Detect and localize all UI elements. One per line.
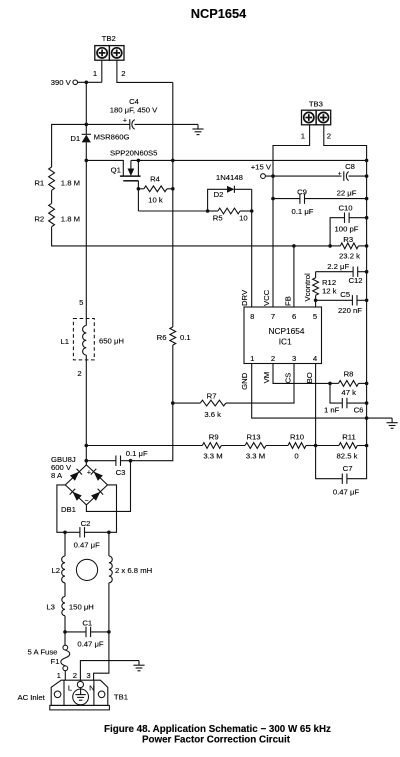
svg-text:−: −: [84, 498, 88, 505]
gate wire to driver network: [138, 209, 209, 213]
Q1 source row to ground column and rail: [131, 159, 369, 163]
svg-text:N: N: [89, 684, 95, 693]
wire TB2-1 to 390V node: [101, 60, 103, 82]
svg-text:2: 2: [271, 354, 275, 363]
op-amp U IC1 NCP1654 controller: [244, 307, 322, 364]
wire FB pin drop: [293, 246, 295, 307]
svg-text:0.47 μF: 0.47 μF: [74, 541, 101, 550]
wire R13 to R10: [266, 445, 288, 447]
wire fuse to TB1 pin 1: [64, 671, 66, 681]
pin label GND: [240, 372, 249, 390]
wire 390V rail down to D1 cathode: [85, 82, 87, 134]
node 390 V: [51, 78, 102, 87]
svg-text:1.8 M: 1.8 M: [61, 179, 80, 188]
wire earth to chassis ground: [80, 661, 139, 682]
wire bridge rail to R9: [85, 444, 203, 448]
resistor R9 3.3 M: [202, 432, 222, 460]
svg-text:R5: R5: [213, 213, 223, 222]
svg-text:AC Inlet: AC Inlet: [17, 693, 45, 702]
resistor R13 3.3 M: [245, 432, 266, 460]
svg-text:2 x 6.8 mH: 2 x 6.8 mH: [115, 566, 152, 575]
svg-text:10: 10: [239, 213, 248, 222]
svg-text:F1: F1: [51, 657, 60, 666]
pin label VM: [262, 372, 271, 384]
inductor L3 150 uH: [46, 597, 94, 616]
node +15 V: [251, 162, 342, 178]
label AC Inlet: [17, 693, 45, 702]
svg-text:C12: C12: [348, 276, 362, 285]
capacitor C7 0.47 uF: [316, 446, 367, 497]
svg-text:1: 1: [93, 69, 97, 78]
svg-text:0.47 μF: 0.47 μF: [77, 639, 104, 648]
svg-text:DB1: DB1: [61, 505, 76, 514]
svg-text:FB: FB: [283, 296, 292, 306]
resistor R3 23.2 k: [292, 235, 368, 260]
svg-text:R10: R10: [290, 432, 304, 441]
resistor R12 12 k: [313, 272, 337, 307]
svg-text:82.5 k: 82.5 k: [337, 451, 358, 460]
wire L1 to bridge positive rail: [85, 355, 87, 465]
svg-text:100 pF: 100 pF: [335, 225, 359, 234]
svg-text:8 A: 8 A: [51, 471, 63, 480]
svg-text:1.8 M: 1.8 M: [61, 215, 80, 224]
svg-text:0.1 μF: 0.1 μF: [292, 207, 314, 216]
TB2 pin 2 label: [121, 69, 125, 78]
svg-text:150 μH: 150 μH: [69, 603, 94, 612]
pin label DRV: [240, 289, 249, 306]
capacitor C2 0.47 uF: [63, 519, 110, 549]
svg-text:R2: R2: [34, 215, 44, 224]
svg-text:C9: C9: [297, 187, 307, 196]
svg-text:TB2: TB2: [102, 34, 116, 43]
svg-text:+: +: [123, 117, 127, 124]
pin label BO: [305, 372, 314, 383]
capacitor C1 0.47 uF: [63, 618, 110, 648]
svg-text:7: 7: [271, 312, 275, 321]
svg-text:Vcontrol: Vcontrol: [303, 273, 312, 301]
pin label VCC: [262, 289, 271, 306]
capacitor C9 0.1 uF: [271, 187, 368, 216]
wire L2 to L3: [64, 583, 66, 597]
capacitor C8 22 uF: [337, 162, 369, 198]
TB1 pin labels: [57, 671, 91, 680]
capacitor C3 0.1 uF: [85, 449, 148, 477]
svg-text:R6: R6: [157, 333, 167, 342]
terminal block TB3: [302, 100, 331, 125]
resistor R8 47 k: [328, 370, 368, 398]
TB3 pin 1 label: [301, 132, 305, 141]
wire R9 to R13: [221, 445, 245, 447]
wire L3 to C1 row: [64, 616, 66, 632]
svg-text:10 k: 10 k: [148, 195, 163, 204]
chassis ground symbol: [133, 661, 144, 671]
svg-text:22 μF: 22 μF: [337, 188, 357, 197]
svg-text:390 V: 390 V: [51, 78, 72, 87]
svg-text:TB3: TB3: [309, 100, 323, 109]
pin label FB: [283, 296, 292, 306]
capacitor C4: [85, 97, 199, 130]
svg-text:1: 1: [57, 671, 61, 680]
svg-text:+15 V: +15 V: [251, 162, 272, 171]
pin label CS: [283, 373, 292, 384]
drain node wire to Q1 drain: [85, 159, 124, 177]
svg-text:D1: D1: [70, 134, 80, 143]
svg-text:C10: C10: [338, 203, 352, 212]
svg-text:0.1 μF: 0.1 μF: [126, 449, 148, 458]
inductor L2 2 x 6.8 mH: [51, 556, 152, 583]
TB3 pin 2 label: [327, 132, 331, 141]
wire TB2-2 down and right to ground column: [117, 60, 173, 82]
wire R10 to BO node: [306, 444, 317, 448]
svg-text:0.1: 0.1: [180, 333, 191, 342]
ground near C4: [192, 124, 203, 134]
wire VM pin to R8 row: [273, 364, 330, 384]
resistor R7 3.6 k: [173, 364, 294, 419]
wire C2 to L2 left winding: [64, 532, 66, 556]
svg-text:2: 2: [73, 671, 77, 680]
svg-text:R4: R4: [150, 175, 161, 184]
ground right of IC: [387, 418, 398, 428]
pin label Vcontrol: [303, 273, 312, 301]
svg-text:1N4148: 1N4148: [216, 173, 243, 182]
svg-text:Power Factor Correction Circui: Power Factor Correction Circuit: [142, 735, 291, 746]
svg-text:12 k: 12 k: [322, 286, 337, 295]
wire R6 to R7 junction and C3 row: [131, 345, 175, 461]
svg-text:180 μF, 450 V: 180 μF, 450 V: [110, 106, 158, 115]
svg-text:8: 8: [250, 312, 254, 321]
svg-text:+: +: [338, 170, 342, 177]
svg-text:1: 1: [301, 132, 305, 141]
terminal block TB2: [95, 34, 124, 60]
svg-text:R1: R1: [34, 179, 44, 188]
fuse F1 5 A: [28, 645, 70, 671]
svg-text:Figure 48. Application Schemat: Figure 48. Application Schematic − 300 W…: [104, 724, 331, 735]
Q1 body: channel, arrow, source stubs, gate: [120, 159, 141, 211]
svg-text:C3: C3: [116, 468, 126, 477]
svg-text:R9: R9: [209, 432, 219, 441]
svg-text:5 A Fuse: 5 A Fuse: [28, 648, 58, 657]
svg-text:Q1: Q1: [111, 166, 121, 175]
svg-text:IC1: IC1: [279, 337, 292, 347]
svg-text:SPP20N60S5: SPP20N60S5: [110, 148, 157, 157]
svg-text:6: 6: [292, 312, 296, 321]
resistor R5 10: [208, 208, 254, 222]
capacitor C12 2.2 uF: [316, 262, 369, 285]
svg-text:MSR860G: MSR860G: [94, 133, 130, 142]
wire bridge left AC to C2 row: [57, 485, 65, 532]
svg-text:5: 5: [313, 312, 317, 321]
svg-text:DRV: DRV: [240, 289, 249, 306]
transistor Q1 SPP20N60S5: [110, 148, 157, 174]
wire GND pin to ground row: [252, 364, 392, 420]
svg-text:4: 4: [313, 354, 318, 363]
svg-text:VM: VM: [262, 372, 271, 384]
resistor R2 1.8 M: [34, 203, 80, 226]
wire C1 to fuse: [64, 632, 66, 645]
svg-text:R8: R8: [344, 370, 354, 379]
wire R2 to FB row: [52, 227, 331, 246]
svg-text:C5: C5: [340, 290, 350, 299]
svg-text:5: 5: [79, 298, 83, 307]
TB2 pin 1 label: [93, 69, 97, 78]
svg-text:3.3 M: 3.3 M: [246, 451, 265, 460]
wire TB3-1 to +15V column: [273, 125, 310, 307]
wire R1 to R2: [51, 190, 53, 203]
svg-text:23.2 k: 23.2 k: [339, 251, 360, 260]
svg-text:3: 3: [86, 671, 90, 680]
TB1 earth symbol: [73, 688, 89, 705]
svg-text:0: 0: [294, 451, 298, 460]
svg-text:220 nF: 220 nF: [338, 306, 362, 315]
wire BO pin down to divider: [315, 364, 317, 446]
svg-text:2.2 μF: 2.2 μF: [327, 262, 349, 271]
svg-text:1: 1: [250, 354, 254, 363]
svg-text:3: 3: [292, 354, 296, 363]
wire bridge right AC to C2 row: [108, 485, 117, 532]
svg-text:2: 2: [77, 369, 81, 378]
svg-text:3.3 M: 3.3 M: [203, 451, 222, 460]
inductor L1 650 uH: [60, 298, 124, 378]
svg-text:C4: C4: [129, 97, 140, 106]
diode D2 1N4148: [208, 173, 252, 211]
svg-text:C8: C8: [345, 162, 355, 171]
resistor R6 0.1: [157, 327, 191, 345]
TB1 L and N labels: [68, 684, 95, 693]
svg-text:D2: D2: [214, 190, 224, 199]
TB1 earth terminal circle: [77, 681, 83, 687]
caption: [104, 724, 331, 746]
capacitor C6 1 nF: [324, 383, 368, 414]
svg-text:CS: CS: [283, 373, 292, 384]
diode D1 MSR860G: [70, 133, 129, 161]
svg-text:L: L: [68, 684, 73, 693]
svg-text:R11: R11: [342, 432, 356, 441]
svg-text:VCC: VCC: [262, 289, 271, 306]
svg-text:2: 2: [327, 132, 331, 141]
svg-text:L2: L2: [51, 566, 60, 575]
svg-text:1 nF: 1 nF: [324, 405, 340, 414]
wire TB1 pin 3 to N line: [94, 632, 109, 680]
resistor R10 0: [288, 432, 306, 460]
svg-text:R7: R7: [207, 391, 217, 400]
AC inlet TB1 body: [50, 680, 110, 710]
svg-text:47 k: 47 k: [341, 388, 356, 397]
wire TB3-2 to right rail: [324, 125, 367, 446]
svg-text:C1: C1: [82, 618, 92, 627]
svg-text:L1: L1: [60, 337, 69, 346]
capacitor C5 220 nF: [314, 290, 369, 315]
svg-text:NCP1654: NCP1654: [269, 326, 305, 336]
resistor R1 1.8 M: [34, 167, 80, 190]
wire DRV pin to driver: [251, 211, 253, 307]
ground column from TB2-2 down: [171, 82, 175, 327]
bridge rectifier DB1 GBU8J: [51, 455, 108, 514]
svg-text:0.47 μF: 0.47 μF: [333, 488, 360, 497]
svg-text:650 μH: 650 μH: [99, 336, 124, 345]
wire 390V row to R1 divider: [52, 124, 87, 167]
svg-text:C6: C6: [354, 406, 364, 415]
wire L2 right winding down to C1: [108, 532, 110, 632]
svg-text:GND: GND: [240, 372, 249, 390]
wire drain node down to L1: [85, 160, 87, 325]
svg-text:C2: C2: [81, 519, 91, 528]
svg-text:3.6 k: 3.6 k: [204, 410, 221, 419]
svg-text:L3: L3: [46, 603, 55, 612]
svg-text:C7: C7: [343, 464, 353, 473]
svg-text:2: 2: [121, 69, 125, 78]
svg-text:R13: R13: [246, 432, 260, 441]
svg-text:TB1: TB1: [114, 692, 128, 701]
resistor R4 10 k: [137, 175, 173, 205]
svg-text:NCP1654: NCP1654: [191, 6, 247, 21]
title NCP1654: [191, 6, 247, 21]
resistor R11 82.5 k: [316, 432, 369, 460]
svg-text:+: +: [87, 470, 91, 477]
capacitor C10 100 pF: [330, 203, 368, 246]
wire C3 junction down to bridge minus: [86, 461, 130, 512]
svg-text:BO: BO: [305, 372, 314, 383]
label TB1: [114, 692, 128, 701]
